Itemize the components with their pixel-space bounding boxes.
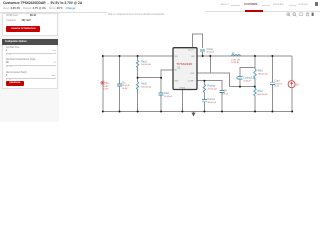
info box: [2, 13, 58, 35]
wire Rsd rail: [137, 56, 139, 112]
svg-text:Cff: Cff: [224, 90, 227, 93]
node Rsd top: [137, 55, 139, 57]
wire SW to VOS vertical: [209, 56, 211, 73]
resistor Rfb1: [254, 69, 256, 78]
capacitor Cin: [117, 83, 122, 87]
svg-text:180.00 kΩ: 180.00 kΩ: [258, 74, 268, 76]
svg-text:5.00V: 5.00V: [103, 88, 109, 90]
node Vout top: [254, 55, 256, 57]
node Rsd bottom: [137, 111, 139, 113]
resistor Rsd1: [136, 60, 138, 67]
svg-text:TPS62420: TPS62420: [176, 62, 193, 66]
svg-text:100.00 kΩ: 100.00 kΩ: [141, 64, 151, 66]
svg-text:22.00 pF: 22.00 pF: [222, 93, 229, 95]
field 3: [6, 72, 27, 74]
divider under header: [0, 11, 107, 14]
wire Cin rail: [119, 56, 121, 112]
load current source Iout: [288, 81, 299, 88]
node Rfb2 bottom: [254, 111, 256, 113]
node Cin bottom: [119, 111, 121, 113]
header row 2: [3, 7, 75, 10]
svg-text:L1: L1: [232, 51, 235, 55]
node Cdef bottom: [160, 111, 162, 113]
wire Cff loop: [240, 68, 255, 87]
svg-text:360.00 kΩ: 360.00 kΩ: [257, 94, 267, 96]
node Cff bottom: [239, 86, 241, 88]
resistor Rcomp: [203, 85, 205, 93]
resistor Rsd2: [136, 82, 138, 89]
schematic toolbar icons: [286, 12, 316, 17]
wire left rail: [102, 56, 104, 112]
node bottom-left corner: [102, 111, 104, 113]
capacitor Cff: [220, 90, 225, 92]
svg-text:GND: GND: [174, 81, 179, 83]
wire top rail left: [103, 55, 173, 57]
wire bottom rail: [103, 111, 292, 113]
wire Cdef branch: [160, 78, 162, 112]
node Cout bottom: [271, 111, 273, 113]
svg-text:22.00 uF: 22.00 uF: [275, 83, 283, 85]
svg-text:Rfb2: Rfb2: [257, 90, 263, 93]
terminal marks Ccomp2: [236, 77, 255, 79]
IC U1 TPS62420: [173, 48, 197, 90]
resistor Rfb2: [254, 89, 256, 96]
node Cff bottom rail: [221, 111, 223, 113]
svg-text:Ccomp2: Ccomp2: [243, 77, 253, 80]
svg-text:Cout: Cout: [275, 80, 280, 83]
svg-text:Cboot: Cboot: [207, 48, 214, 51]
svg-text:47.00 kΩ: 47.00 kΩ: [208, 88, 217, 90]
svg-text:Ccomp: Ccomp: [208, 98, 216, 101]
node Ccomp bottom: [203, 111, 205, 113]
nav underline row: [205, 10, 320, 13]
svg-text:BOOT: BOOT: [188, 49, 194, 51]
schematic SVG: [0, 0, 320, 122]
wire Cff branch: [204, 81, 222, 112]
schematic hint text: [108, 13, 164, 16]
node load bottom: [291, 111, 293, 113]
svg-text:820.00 pF: 820.00 pF: [208, 102, 217, 104]
svg-text:COMP: COMP: [188, 81, 194, 83]
wire COMP pin: [197, 80, 204, 82]
wire Rfb rail: [254, 56, 256, 112]
configuration options panel: [2, 39, 58, 45]
wire SD net: [138, 70, 173, 78]
change optimization button: [6, 26, 40, 32]
svg-text:16.0V: 16.0V: [122, 88, 128, 90]
svg-text:SW: SW: [191, 56, 194, 58]
svg-text:22.00 pF: 22.00 pF: [243, 81, 251, 83]
svg-text:100.00 kΩ: 100.00 kΩ: [141, 86, 151, 88]
labels: [97, 48, 282, 104]
inductor L1: [232, 55, 241, 56]
header title: [3, 1, 82, 5]
node COMP: [203, 80, 205, 82]
capacitor Cboot: [200, 49, 205, 51]
svg-text:Cin: Cin: [122, 81, 126, 84]
wire load drop: [291, 56, 293, 112]
ground symbol: [193, 112, 195, 113]
svg-text:Rcomp: Rcomp: [208, 85, 216, 88]
capacitor Ccomp2: [238, 75, 243, 80]
left panel page background: [0, 13, 59, 122]
svg-text:6.3V: 6.3V: [275, 86, 280, 88]
wire Cout rail: [271, 56, 273, 112]
svg-text:Rsd1: Rsd1: [141, 60, 147, 63]
capacitor Cdef: [159, 92, 164, 97]
wire top rail right: [197, 55, 292, 57]
svg-text:2A: 2A: [296, 83, 299, 86]
node SD-Cdef: [160, 77, 162, 79]
svg-text:Cdef: Cdef: [164, 92, 169, 95]
junction dots: [102, 55, 293, 113]
wire BOOT loop: [193, 34, 203, 56]
header nav: [221, 4, 230, 6]
source VIN net marker: [100, 80, 105, 85]
node Cin top: [119, 55, 121, 57]
wire GND pin: [181, 90, 183, 112]
wire comp branch: [203, 81, 205, 112]
node FB: [254, 86, 256, 88]
node Rsd mid: [137, 77, 139, 79]
node Cboot bottom: [202, 55, 204, 57]
node SW-Cff: [209, 55, 211, 57]
field 1: [6, 47, 19, 49]
svg-text:3.20 A: 3.20 A: [231, 61, 239, 64]
node GND bottom: [181, 111, 183, 113]
svg-text:+: +: [97, 80, 99, 82]
svg-text:10.00 pF: 10.00 pF: [164, 96, 173, 98]
capacitor Cout: [270, 81, 275, 86]
svg-text:PGND: PGND: [180, 88, 186, 90]
svg-text:Rsd2: Rsd2: [141, 83, 147, 86]
svg-text:Rfb1: Rfb1: [258, 70, 264, 73]
wire VOS net: [197, 73, 255, 87]
pin labels: [174, 49, 195, 89]
field 2: [6, 59, 36, 61]
node Cout top: [271, 55, 273, 57]
svg-text:22.00 pF: 22.00 pF: [207, 52, 215, 54]
capacitor Ccomp: [202, 99, 207, 103]
svg-text:Vin: Vin: [105, 82, 109, 85]
redesign button: [6, 81, 25, 86]
node top-left corner: [102, 55, 104, 57]
